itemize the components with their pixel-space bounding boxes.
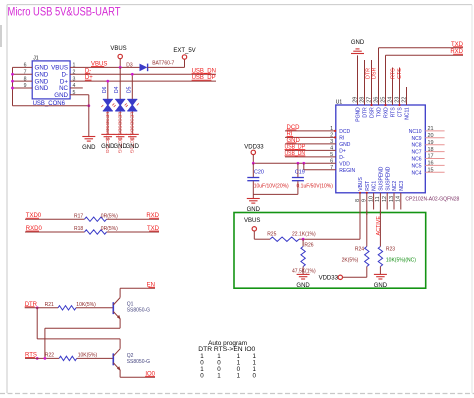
svg-text:GND: GND (296, 283, 310, 289)
svg-text:0R(5%): 0R(5%) (101, 213, 118, 219)
svg-text:R21: R21 (45, 302, 54, 308)
svg-text:VDD33: VDD33 (244, 144, 264, 150)
svg-text:BAT760-7: BAT760-7 (152, 61, 174, 67)
svg-text:TXD: TXD (377, 107, 383, 117)
svg-text:R24: R24 (355, 247, 364, 253)
svg-text:10K(5%): 10K(5%) (76, 302, 96, 308)
svg-text:1: 1 (217, 372, 221, 379)
svg-text:GND: GND (374, 283, 388, 289)
svg-text:C19: C19 (295, 170, 305, 176)
svg-text:Micro USB 5V&USB-UART: Micro USB 5V&USB-UART (8, 5, 122, 19)
svg-text:10K(5%)(NC): 10K(5%)(NC) (386, 258, 416, 264)
svg-text:DSR: DSR (371, 68, 377, 79)
svg-text:21: 21 (428, 126, 434, 132)
svg-text:NC8: NC8 (411, 143, 421, 149)
svg-text:VBUS: VBUS (358, 177, 364, 191)
svg-text:GND: GND (54, 92, 68, 99)
svg-text:DSR: DSR (370, 107, 376, 118)
svg-text:NC2: NC2 (392, 181, 398, 191)
svg-text:R26: R26 (304, 242, 313, 248)
svg-text:0: 0 (252, 372, 256, 379)
svg-text:NC3: NC3 (399, 181, 405, 191)
svg-text:16: 16 (428, 161, 434, 167)
svg-text:RTS: RTS (391, 68, 397, 79)
svg-text:NC10: NC10 (409, 129, 422, 135)
svg-text:R22: R22 (45, 353, 54, 359)
svg-text:NC5: NC5 (411, 163, 421, 169)
svg-text:47.5K(1%): 47.5K(1%) (292, 269, 316, 275)
svg-text:RXD: RXD (384, 107, 390, 118)
svg-text:CTS: CTS (397, 68, 403, 79)
svg-text:EXT_5V: EXT_5V (173, 48, 195, 54)
svg-text:7: 7 (24, 69, 27, 75)
svg-text:1: 1 (237, 372, 241, 379)
svg-text:C20: C20 (254, 170, 264, 176)
svg-text:R17: R17 (74, 213, 83, 219)
svg-text:6: 6 (24, 63, 27, 69)
svg-text:R18: R18 (74, 226, 83, 232)
svg-text:DTR: DTR (363, 107, 369, 118)
svg-text:NC7: NC7 (411, 150, 421, 156)
svg-text:20: 20 (428, 133, 434, 139)
svg-text:2K(5%): 2K(5%) (342, 258, 359, 264)
svg-text:RTS: RTS (391, 107, 397, 118)
svg-text:SUSPEND: SUSPEND (385, 166, 391, 191)
svg-text:U1: U1 (336, 99, 343, 105)
svg-text:D5: D5 (126, 86, 132, 93)
svg-text:D4: D4 (114, 86, 120, 93)
svg-text:D-: D- (339, 155, 345, 161)
svg-text:RI: RI (339, 135, 344, 141)
svg-text:VBUS: VBUS (110, 46, 126, 52)
svg-text:8: 8 (24, 76, 27, 82)
svg-text:GND: GND (126, 144, 140, 150)
svg-text:CTS: CTS (398, 107, 404, 118)
svg-text:17: 17 (428, 154, 434, 160)
svg-text:J1: J1 (33, 56, 39, 62)
svg-text:0.1uF/50V(10%): 0.1uF/50V(10%) (297, 183, 334, 189)
svg-text:SS8050-G: SS8050-G (127, 308, 150, 314)
svg-text:ACTIVE: ACTIVE (376, 216, 382, 236)
svg-text:R23: R23 (386, 247, 395, 253)
svg-text:10K(5%): 10K(5%) (78, 353, 98, 359)
svg-text:NC11: NC11 (405, 107, 411, 120)
svg-text:VBUS: VBUS (244, 218, 260, 224)
svg-text:VDD: VDD (339, 161, 350, 167)
svg-text:GND: GND (35, 85, 49, 92)
svg-text:10uF/10V(20%): 10uF/10V(20%) (254, 183, 289, 189)
svg-text:REGIN: REGIN (339, 168, 355, 174)
svg-text:D6: D6 (102, 86, 108, 93)
svg-text:R25: R25 (267, 232, 276, 238)
svg-text:22.1K(1%): 22.1K(1%) (292, 232, 316, 238)
svg-text:CP2102N-A02-GQFN28: CP2102N-A02-GQFN28 (405, 197, 459, 203)
svg-text:DTR RTS->EN IO0: DTR RTS->EN IO0 (198, 346, 256, 353)
svg-text:NC4: NC4 (411, 170, 421, 176)
svg-text:SS8050-G: SS8050-G (127, 359, 150, 365)
svg-text:NC6: NC6 (411, 157, 421, 163)
svg-text:RST: RST (365, 181, 371, 191)
svg-text:15: 15 (428, 168, 434, 174)
svg-text:0R(5%): 0R(5%) (101, 226, 118, 232)
svg-text:GND: GND (351, 40, 365, 46)
svg-text:GND: GND (82, 145, 96, 151)
svg-text:18: 18 (428, 147, 434, 153)
svg-text:NC9: NC9 (411, 136, 421, 142)
svg-text:DCD: DCD (339, 129, 350, 135)
svg-text:19: 19 (428, 140, 434, 146)
svg-text:NC1: NC1 (372, 181, 378, 191)
svg-text:SUSPEND: SUSPEND (379, 166, 385, 191)
svg-text:GND: GND (339, 142, 351, 148)
svg-text:VDD33: VDD33 (319, 276, 339, 282)
svg-text:DTR: DTR (365, 68, 371, 79)
svg-text:D3: D3 (126, 62, 133, 68)
svg-text:D+: D+ (339, 148, 346, 154)
svg-text:PGND: PGND (356, 107, 362, 122)
svg-text:0: 0 (200, 372, 204, 379)
svg-text:9: 9 (24, 83, 27, 89)
